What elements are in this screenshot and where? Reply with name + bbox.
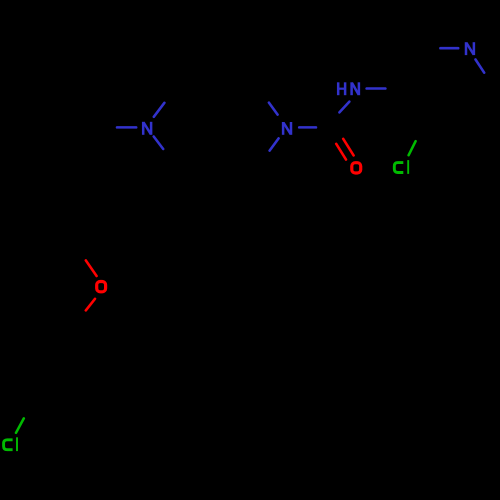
atom N1 (left ring N, N-methyl amine) label bbox=[143, 122, 151, 135]
bond N4-C2' half-bond bbox=[440, 47, 458, 50]
bond C=O1 double bond half (main line) bbox=[343, 139, 353, 156]
bond N4-C6' half-bond bbox=[476, 60, 485, 73]
bond N2-C (down-left ring bond) half-bond bbox=[270, 138, 279, 150]
atom Cl1 (pyridine 4-chloro) label bbox=[394, 160, 408, 174]
bond N3-C(=O) half-bond bbox=[339, 102, 349, 113]
bond N1-C6 (down-right ring bond) half-bond bbox=[154, 137, 164, 150]
bond N1-C2 (up-right ring bond) half-bond bbox=[154, 103, 165, 117]
atom N4 (pyridine N) label bbox=[466, 42, 474, 55]
bond Cl1-C4' half-bond bbox=[409, 141, 416, 155]
bond C=O1 double bond half (offset line) bbox=[336, 144, 346, 160]
atom N2 (right ring N, amide N) label bbox=[283, 122, 291, 135]
bond N2-C (up-left ring bond) half-bond bbox=[269, 103, 278, 115]
bond N1-CH3 (methyl) half-bond bbox=[117, 126, 136, 129]
atom Cl2 (benzene chloro) label bbox=[4, 437, 17, 451]
bond N2-C(=O) (amide C) half-bond bbox=[299, 126, 316, 129]
atom O1 (carbonyl O) label bbox=[352, 163, 361, 173]
bond O2-CH2 (up chain) half-bond bbox=[86, 260, 97, 276]
bond N3-C3' (to pyridine C3) half-bond bbox=[367, 87, 386, 90]
bond Cl2-C aryl half-bond bbox=[16, 418, 24, 432]
atom O2 (ether O) label bbox=[97, 282, 106, 292]
bond O2-C1'' (down to aryl) half-bond bbox=[86, 299, 95, 311]
atom N3 (amide NH) label HN bbox=[338, 82, 359, 95]
